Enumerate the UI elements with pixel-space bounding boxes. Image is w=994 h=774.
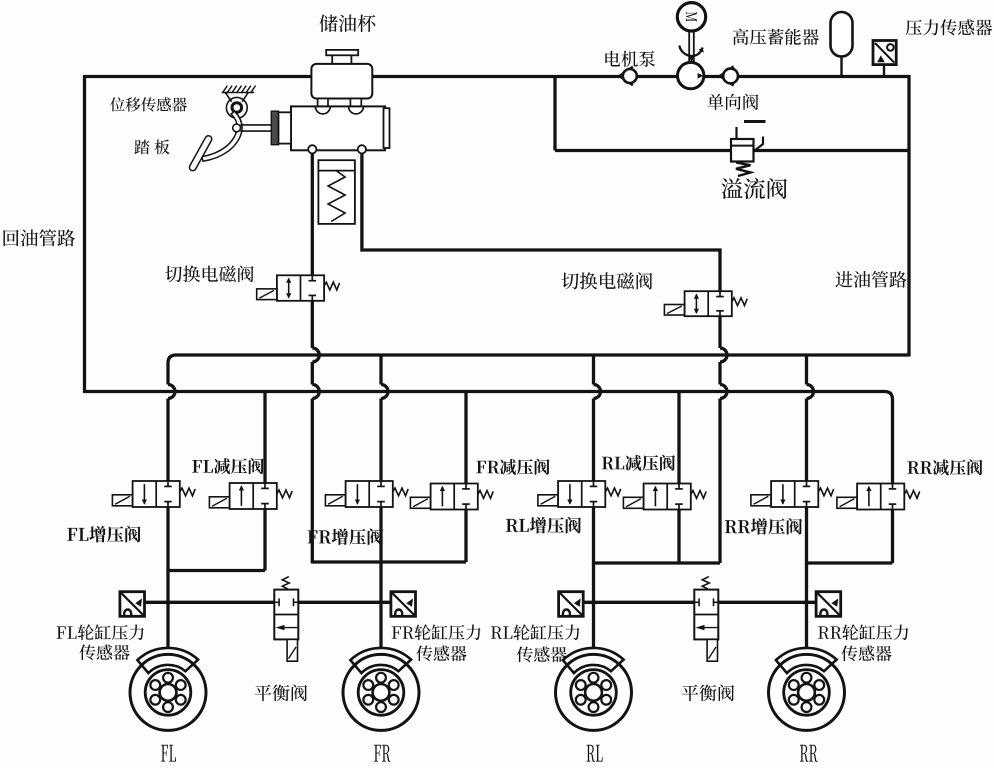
label 压力传感器	[906, 19, 993, 35]
wire: RR valve-bottom drop x=806.5	[805, 506, 808, 565]
wire: wheel-cylinder sensor row y=602.3 FL segment	[144, 601, 275, 604]
label 切换电磁阀 right	[561, 272, 652, 289]
accumulator A1 (高压蓄能器) capsule	[831, 12, 853, 57]
pressure sensor PS-RR (RR轮缸压力传感器) icon	[816, 592, 841, 617]
pedal return spring box under master cylinder	[318, 160, 355, 224]
pedal pivot P (位移传感器 location) outer circle	[226, 97, 247, 118]
motor rotation arrow arc	[679, 46, 702, 57]
pedal mount hatching (wall)	[222, 92, 255, 94]
wire: RR reduce-valve bottom x=892.5	[891, 509, 894, 564]
wheel RR brake disc	[769, 654, 845, 730]
wire: FR supply drop x=381 from bus1, hop over bus2	[379, 355, 382, 385]
label 平衡阀 front	[255, 684, 307, 701]
pump P1 (泵) circle	[678, 62, 704, 88]
label 单向阀	[707, 94, 758, 110]
wire: FR group junction bar y=562	[312, 560, 466, 563]
wire: FL valve-bottom drop and junction line y=570.5	[166, 506, 169, 572]
balance valve BV2 (平衡阀 rear)	[702, 577, 709, 589]
wire: x=312.3 below switch valve	[311, 300, 314, 348]
valve RL减压阀 (RL release valve)	[644, 484, 691, 510]
switch solenoid valve SV1 (切换电磁阀 left)	[277, 275, 324, 301]
label RR增压阀	[725, 518, 802, 535]
push-rod piston dark block	[271, 111, 278, 145]
balance valve BV1 (平衡阀 front)	[282, 577, 289, 589]
label FR轮缸压力 传感器	[392, 624, 481, 640]
pressure sensor PS-RL (RL轮缸压力传感器) icon	[559, 592, 584, 617]
label FL	[161, 745, 176, 762]
wire: RR wheel line x=806.5	[805, 563, 808, 649]
label FR减压阀	[476, 459, 549, 475]
pedal pivot inner ring	[232, 103, 242, 113]
label 进油管路	[835, 271, 906, 288]
wire: RL reduce-valve drop x=679 from bus2	[677, 392, 680, 485]
master cylinder outlet ports (two circles)	[308, 145, 316, 153]
wire: FR wheel line x=381	[379, 562, 382, 649]
label RR	[800, 745, 818, 762]
wire: RL wheel line x=593.5	[592, 563, 595, 649]
valve FL增压阀 (FL apply valve)	[133, 481, 180, 507]
wire: master-cylinder port-2 link x=361.9 down and across y=250 to right switch valve	[362, 150, 720, 293]
label RL增压阀	[506, 517, 581, 534]
reservoir cap (储油杯 cap)	[332, 55, 351, 64]
relief valve pilot stub left	[735, 127, 737, 139]
push rod (double line)	[240, 124, 271, 126]
wire: left return edge (回油管路)	[83, 75, 86, 393]
label RR轮缸压力 传感器	[818, 624, 908, 640]
wire: relief-valve branch drop at x=555	[553, 77, 556, 151]
label 储油杯	[320, 15, 376, 33]
wire: RL valve-bottom drop x=593.5	[592, 506, 595, 565]
master cylinder end cap	[384, 108, 390, 148]
push-rod guide block	[279, 112, 292, 143]
label 溢流阀	[721, 178, 786, 199]
label FL减压阀	[192, 458, 263, 474]
wire: FL wheel line x=168 to brake caliper	[166, 571, 169, 649]
wheel FR brake disc	[343, 654, 419, 730]
switch solenoid valve SV2 (切换电磁阀 right)	[685, 291, 732, 316]
master cylinder MC1 body	[291, 106, 385, 150]
label 电机泵	[605, 51, 655, 67]
wire: return bus (bus2 y=391.5) with corner down at right end	[85, 392, 893, 400]
wire: master-cylinder port-2 line x=720 below switch valve, hops to RL junction	[718, 316, 721, 349]
relief valve vent dash	[744, 120, 766, 123]
relief valve V3 (溢流阀) body	[731, 139, 754, 162]
valve FR减压阀 (FR release valve)	[431, 484, 478, 510]
label RL	[587, 745, 603, 762]
valve FR增压阀 (FR apply valve)	[346, 481, 393, 507]
reservoir necks	[318, 99, 328, 107]
valve FL减压阀 (FL release valve)	[230, 483, 277, 509]
pump outlet arrowhead	[698, 73, 704, 79]
pressure sensor stub wire	[883, 65, 885, 77]
label 高压蓄能器	[733, 29, 819, 45]
wire: RR group junction bar y=563	[807, 561, 893, 564]
label FL增压阀	[67, 526, 140, 543]
label 平衡阀 rear	[682, 684, 734, 701]
wheel RL brake disc	[556, 654, 632, 730]
accumulator stub wire	[840, 57, 842, 77]
reservoir R1 (储油杯) body	[311, 64, 372, 99]
wire: sensor row y=602.3 RL segment	[582, 601, 694, 604]
relief valve pilot hook right	[754, 137, 763, 152]
wire: master-cylinder port-1 line x=312.3 through hops to FR junction	[311, 150, 314, 277]
label FR	[374, 745, 390, 762]
label RL轮缸压力 传感器	[491, 624, 580, 640]
wire: RL supply drop x=593.5 from bus1, hop over bus2	[592, 355, 595, 385]
valve RR减压阀 (RR release valve)	[857, 484, 904, 510]
wire: right supply edge (进油管路)	[907, 75, 910, 357]
valve RR增压阀 (RR apply valve)	[771, 481, 818, 507]
pedal push-rod joint circle	[233, 124, 241, 132]
valve RL增压阀 (RL apply valve)	[558, 481, 605, 507]
label 踏板	[134, 139, 169, 154]
wheel FL brake disc	[130, 654, 206, 730]
pedal arm (踏板) curved band	[202, 111, 242, 161]
wire: FL group junction bar y=570.5	[167, 569, 266, 572]
pressure sensor PS-FR (FR轮缸压力传感器) icon	[391, 592, 416, 617]
pressure sensor PS0 (压力传感器) square icon	[873, 41, 896, 65]
relief valve spring	[736, 163, 751, 177]
pedal foot pad	[188, 135, 213, 172]
wire: sensor row y=602.3 balance-valve-2 to RR sensor	[718, 601, 817, 604]
wire: sensor row y=602.3 balance-valve-1 to FR sensor	[298, 601, 391, 604]
check valve V2 (单向阀)	[720, 66, 734, 85]
pressure sensor PS-FL (FL轮缸压力传感器) icon	[120, 592, 145, 617]
wire: relief-valve line y=150.5	[555, 149, 909, 152]
label 回油管路	[3, 229, 75, 246]
label 位移传感器	[110, 97, 187, 111]
wire: FL supply drop x=168 (bus1 end) hopping over bus2	[166, 363, 169, 385]
check valve V1 (电机泵 inlet)	[619, 67, 632, 85]
wire: RL group junction bar y=563	[594, 561, 721, 564]
pedal mount bracket (trapezoid legs)	[225, 93, 231, 102]
motor shaft arrowhead	[688, 55, 695, 63]
label RL减压阀	[602, 455, 675, 471]
wire: top return line to reservoir (回油管路 top run)	[85, 75, 910, 78]
label 切换电磁阀 left	[165, 265, 254, 282]
motor shaft double line	[688, 31, 690, 63]
wire: supply bus (bus1 y=355) with corner down at left end	[168, 355, 909, 363]
label RR减压阀	[907, 459, 982, 475]
label FR增压阀	[308, 528, 383, 545]
wire: FL reduce-valve bottom x=265	[263, 508, 266, 571]
wire: FR reduce-valve bottom x=466	[464, 509, 467, 563]
master cylinder inlet seats (two arcs)	[315, 106, 330, 114]
label FL轮缸压力 传感器	[57, 624, 144, 640]
wire: FR reduce-valve drop x=466 from bus2	[464, 392, 467, 485]
wire: RR reduce-valve drop x=892.5 from bus2 corner	[891, 400, 894, 485]
wire: RL reduce-valve bottom x=679	[677, 509, 680, 564]
wire: FR valve-bottom drop x=381	[379, 506, 382, 564]
motor M1 (电机) circle with M marking	[677, 3, 705, 31]
wire: RR supply drop x=806.5 from bus1, hop over bus2	[805, 355, 808, 385]
wire: FL reduce-valve drop x=265 from bus2	[263, 392, 266, 485]
